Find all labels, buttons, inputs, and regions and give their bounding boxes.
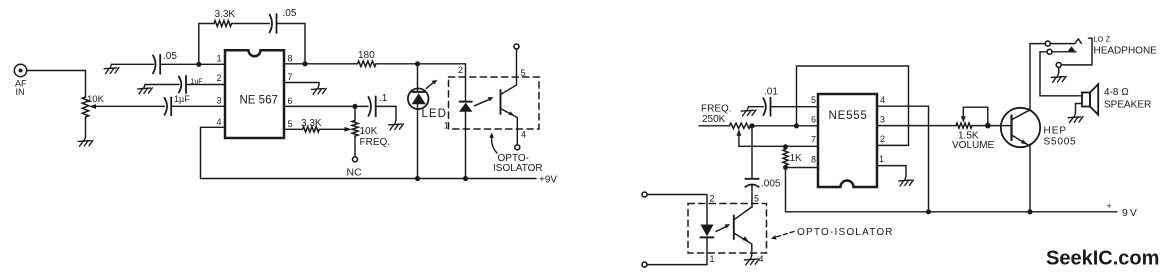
wire ground to C2 (145, 84, 179, 86)
wire wiper to pin7 (739, 145, 818, 147)
wire pin6 to node (284, 105, 368, 107)
svg-text:7: 7 (288, 72, 293, 82)
wire pin7 to ground (284, 83, 319, 86)
svg-text:5: 5 (754, 194, 759, 204)
wire cap to pin 1 (160, 63, 225, 65)
svg-text:1µF: 1µF (174, 94, 190, 104)
op-amp U3 NE555 (818, 94, 877, 187)
wire pot to base (988, 125, 1011, 127)
svg-text:250K: 250K (702, 114, 726, 125)
svg-text:4-8 Ω: 4-8 Ω (1104, 87, 1129, 98)
phototransistor emitter (501, 109, 518, 145)
opto-isolator U2 box (449, 77, 540, 129)
arrowhead into pot (345, 127, 352, 132)
wire sleeve to ground (1058, 67, 1060, 73)
op-amp U1 NE567 (225, 50, 284, 138)
ground C5 (389, 121, 404, 130)
ground (78, 137, 93, 146)
wire bottom rail +9V (201, 178, 537, 180)
ground pin1 row (104, 64, 119, 73)
wire pot to NC (354, 136, 356, 157)
node pin6 b (794, 123, 799, 128)
ground opto right (744, 256, 759, 265)
capacitor C4 .05 (270, 14, 277, 33)
svg-text:2: 2 (458, 65, 463, 75)
wiper 250K arrow (737, 129, 742, 146)
LED D1 (408, 88, 429, 109)
capacitor C7 .005 (745, 179, 758, 187)
svg-text:1K: 1K (790, 153, 803, 164)
svg-text:FREQ.: FREQ. (360, 137, 391, 148)
wire pin4 to rail (877, 106, 929, 212)
svg-text:4: 4 (759, 254, 764, 264)
svg-text:3: 3 (880, 114, 885, 124)
diode opto LED (459, 102, 472, 112)
ground .01 (741, 107, 756, 116)
svg-text:3.3K: 3.3K (215, 9, 236, 20)
wire emitter to rail (1029, 146, 1031, 212)
leader arrow opto right (771, 232, 794, 240)
terminal pin5 left opto (514, 44, 519, 49)
svg-text:HEADPHONE: HEADPHONE (1094, 46, 1158, 57)
svg-text:1: 1 (710, 254, 715, 264)
terminal opto2 pin2 (642, 192, 647, 197)
node 1K top (783, 144, 788, 149)
wire collector riser (1030, 44, 1045, 110)
node pin6 junction (352, 104, 357, 109)
jack tip contact (1050, 39, 1081, 44)
svg-text:SPEAKER: SPEAKER (1104, 100, 1151, 111)
wire R5 to pot arrow (319, 128, 346, 130)
wire pin1 to ground (877, 166, 906, 177)
arrowhead emitter right (742, 236, 748, 241)
resistor R2 3.3K (214, 21, 232, 27)
node LED junction (415, 61, 420, 66)
ground speaker (1068, 113, 1083, 122)
arrowhead wiper (89, 104, 96, 109)
wire pin6 node to pot (354, 106, 356, 120)
speaker SP1 (1082, 84, 1098, 115)
svg-text:LO Z: LO Z (1094, 35, 1111, 44)
svg-text:4: 4 (217, 117, 222, 127)
terminal jack sleeve (1056, 62, 1061, 67)
svg-text:.05: .05 (163, 51, 177, 62)
arrowhead wiper 1.5K (961, 116, 966, 122)
diode opto right (701, 225, 714, 238)
wire C7 to opto collector (751, 186, 753, 208)
svg-text:10K: 10K (87, 94, 105, 105)
wire R3 to LED node (376, 63, 417, 65)
node pin1 junction (196, 62, 201, 67)
svg-text:OPTO-ISOLATOR: OPTO-ISOLATOR (797, 227, 894, 238)
svg-text:2: 2 (880, 134, 885, 144)
svg-text:VOLUME: VOLUME (952, 140, 995, 151)
wire C6 to pin5 (771, 106, 819, 108)
svg-text:SeekIC.com: SeekIC.com (1046, 248, 1159, 270)
arrowhead emitter (508, 111, 514, 116)
wire C4 to pin8 riser (277, 24, 306, 64)
wire pin4 to bottom rail (201, 127, 226, 178)
resistor R3 180 (358, 61, 376, 67)
svg-text:6: 6 (288, 96, 293, 106)
svg-text:1: 1 (879, 154, 884, 164)
leader arrow opto left (489, 133, 497, 154)
svg-text:ISOLATOR: ISOLATOR (493, 163, 543, 174)
arrow light coupling (475, 97, 494, 106)
svg-text:NE555: NE555 (829, 110, 868, 122)
node pot right (985, 123, 991, 129)
svg-text:NC: NC (347, 167, 363, 179)
wire diode to pin1 (647, 237, 707, 264)
svg-text:1: 1 (444, 121, 449, 131)
wiper arrow wire to pin 3 row (95, 105, 165, 107)
wire node to opto pin2 corner (418, 64, 466, 102)
terminal jack tip (1045, 41, 1050, 46)
capacitor C2 1uF (179, 76, 186, 93)
wire LED anode (417, 64, 419, 92)
svg-text:.1: .1 (379, 93, 388, 104)
wire cap to pin 3 (171, 105, 225, 107)
wire pin2 loop to pin6 (797, 66, 909, 145)
wire pin2 to diode (647, 195, 707, 225)
svg-text:10K: 10K (360, 126, 378, 137)
svg-text:6: 6 (811, 115, 816, 125)
wire LED cathode (417, 104, 419, 178)
potentiometer R6 250K (730, 123, 751, 128)
wire feedback riser left (199, 24, 214, 65)
capacitor C6 .01 (763, 98, 770, 116)
ground pin7 (312, 85, 327, 94)
terminal NC (353, 157, 358, 162)
phototransistor right emitter (734, 233, 752, 256)
wire resistor to C4 (232, 23, 270, 25)
node opto pin1 bottom (463, 176, 468, 181)
wire pin8 to R3 (284, 63, 358, 65)
wire 1K to +9V rail (785, 168, 787, 212)
terminal pin4 left opto (515, 145, 520, 150)
wire R6 to IC pin6 (751, 125, 819, 127)
wire pin8 row (786, 167, 819, 169)
svg-text:1: 1 (217, 54, 222, 64)
svg-text:8: 8 (288, 54, 293, 64)
wire ground to C6 (749, 106, 764, 108)
wire opto pin1 (465, 112, 467, 179)
potentiometer R8 1.5K (956, 123, 972, 128)
wire ground to C1 (112, 63, 154, 65)
arrow light coupling right (716, 224, 730, 231)
svg-text:3: 3 (217, 96, 222, 106)
node pin8 junction (302, 61, 307, 66)
wire .005 drop (751, 126, 753, 179)
svg-text:.005: .005 (761, 179, 781, 190)
RIGHT-CIRCUIT (642, 35, 1157, 268)
ground 555 pin1 (899, 177, 914, 186)
svg-text:.01: .01 (764, 87, 778, 98)
svg-text:8: 8 (811, 154, 816, 164)
svg-text:180: 180 (358, 50, 375, 61)
wire pin3 to pot (877, 125, 956, 127)
svg-text:LED: LED (422, 108, 447, 120)
svg-text:+: + (1107, 201, 1112, 211)
potentiometer R4 10K FREQ (352, 121, 358, 137)
transistor Q1 HEP S5005 (1001, 108, 1040, 147)
svg-text:NE 567: NE 567 (240, 95, 278, 107)
connector J1 AF IN (14, 64, 26, 76)
phototransistor collector (501, 49, 517, 95)
potentiometer R1 10K (82, 97, 88, 117)
phototransistor base (500, 90, 502, 114)
wire input to pot (27, 71, 86, 98)
svg-text:.05: .05 (283, 8, 297, 19)
wire +9V rail right (786, 211, 1118, 213)
svg-text:HEP: HEP (1044, 126, 1068, 137)
wire pot to ground (85, 117, 87, 137)
node emitter rail (1027, 209, 1032, 214)
phototransistor right collector (734, 208, 751, 220)
jack sleeve (1061, 38, 1092, 65)
svg-text:4: 4 (521, 130, 526, 140)
svg-text:5: 5 (288, 119, 293, 129)
phototransistor right base (733, 216, 735, 240)
wire pin6 stub (699, 125, 730, 127)
capacitor C3 1uF (165, 97, 172, 115)
wire C5 to ground (376, 106, 396, 120)
svg-text:5: 5 (521, 68, 526, 78)
node pin4 rail (926, 209, 931, 214)
wire speaker to ground (1076, 104, 1083, 114)
wiper 1.5K bracket (963, 107, 988, 125)
ground jack (1051, 73, 1066, 82)
capacitor C5 .1 (368, 96, 375, 116)
LED emission arrow (426, 80, 437, 89)
svg-text:3.3K: 3.3K (301, 118, 322, 129)
svg-text:4: 4 (880, 95, 885, 105)
node pin6 a (749, 123, 754, 128)
terminal jack ring (1047, 49, 1052, 54)
resistor R7 1K (783, 149, 788, 165)
opto-isolator U4 box (688, 204, 767, 254)
node 1K bottom (783, 165, 788, 170)
wire cap to pin 2 (186, 84, 225, 86)
jack ring contact (1052, 46, 1076, 52)
resistor R5 3.3K (303, 127, 320, 132)
capacitor C1 .05 (153, 55, 160, 74)
svg-text:5: 5 (811, 95, 816, 105)
node LED bottom (415, 176, 420, 181)
ground pin2 row (138, 85, 153, 94)
svg-text:S5005: S5005 (1044, 137, 1077, 148)
wire pin5 to R5 (284, 128, 303, 130)
svg-text:2: 2 (217, 73, 222, 83)
svg-text:7: 7 (811, 134, 816, 144)
svg-text:IN: IN (16, 87, 25, 97)
svg-text:9V: 9V (1122, 207, 1139, 219)
wire speaker feed (1040, 52, 1082, 96)
svg-text:2: 2 (710, 194, 715, 204)
terminal opto2 pin1 (642, 262, 647, 267)
svg-text:+9V: +9V (539, 175, 557, 186)
